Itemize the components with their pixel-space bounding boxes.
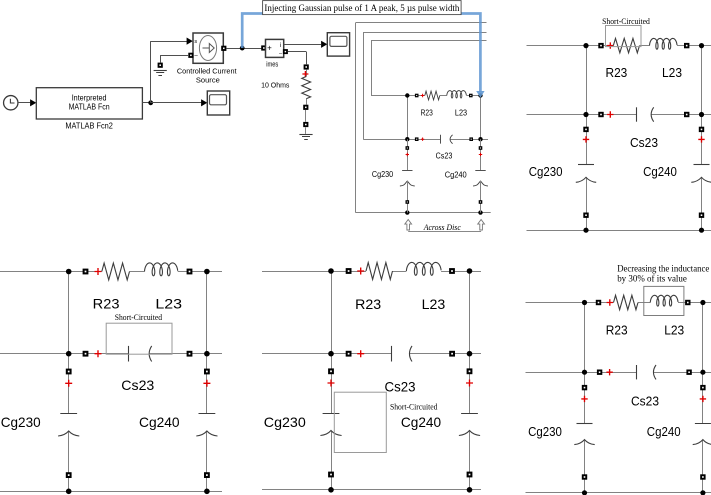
svg-text:Across Disc: Across Disc: [423, 222, 461, 232]
svg-text:Cs23: Cs23: [631, 395, 659, 409]
svg-text:by 30% of its value: by 30% of its value: [617, 274, 687, 284]
svg-text:Cs23: Cs23: [121, 377, 154, 393]
svg-text:Cg240: Cg240: [647, 425, 681, 439]
svg-text:Source: Source: [196, 76, 220, 85]
svg-text:MATLAB Fcn2: MATLAB Fcn2: [65, 121, 113, 130]
svg-text:Cg240: Cg240: [139, 414, 180, 430]
svg-text:Injecting Gaussian pulse of 1: Injecting Gaussian pulse of 1 A peak, 5 …: [264, 3, 459, 14]
svg-text:R23: R23: [355, 296, 381, 312]
svg-text:Cg230: Cg230: [372, 170, 394, 179]
svg-text:Cg230: Cg230: [1, 414, 41, 430]
svg-text:L23: L23: [422, 296, 446, 312]
svg-text:MATLAB Fcn: MATLAB Fcn: [69, 102, 110, 111]
svg-text:Cg240: Cg240: [445, 171, 468, 180]
svg-text:R23: R23: [606, 66, 628, 80]
svg-text:Cg230: Cg230: [529, 165, 563, 179]
svg-text:Cg240: Cg240: [401, 414, 441, 430]
svg-text:L23: L23: [455, 109, 468, 118]
svg-text:10 Ohms: 10 Ohms: [261, 81, 290, 90]
svg-text:Controlled Current: Controlled Current: [177, 66, 238, 75]
svg-text:L23: L23: [664, 324, 684, 338]
svg-text:L23: L23: [155, 296, 182, 312]
svg-text:Short-Circuited: Short-Circuited: [390, 403, 437, 412]
svg-text:R23: R23: [93, 296, 120, 312]
svg-text:+: +: [267, 44, 272, 53]
svg-text:Cg230: Cg230: [264, 414, 306, 430]
svg-text:imes: imes: [266, 59, 278, 68]
svg-text:Cs23: Cs23: [436, 151, 453, 160]
svg-text:R23: R23: [606, 324, 628, 338]
svg-text:Cs23: Cs23: [385, 379, 416, 395]
svg-text:R23: R23: [421, 109, 434, 118]
svg-text:Cg240: Cg240: [643, 165, 677, 179]
svg-text:Cg230: Cg230: [528, 425, 562, 439]
svg-text:Interpreted: Interpreted: [72, 94, 107, 103]
svg-text:s: s: [194, 39, 197, 45]
svg-text:Cs23: Cs23: [630, 136, 658, 150]
svg-text:Decreasing the inductance: Decreasing the inductance: [617, 264, 709, 274]
svg-text:Short-Circuited: Short-Circuited: [115, 313, 162, 322]
svg-text:i: i: [280, 43, 281, 49]
svg-text:L23: L23: [662, 66, 682, 80]
svg-text:Short-Circuited: Short-Circuited: [602, 17, 650, 26]
